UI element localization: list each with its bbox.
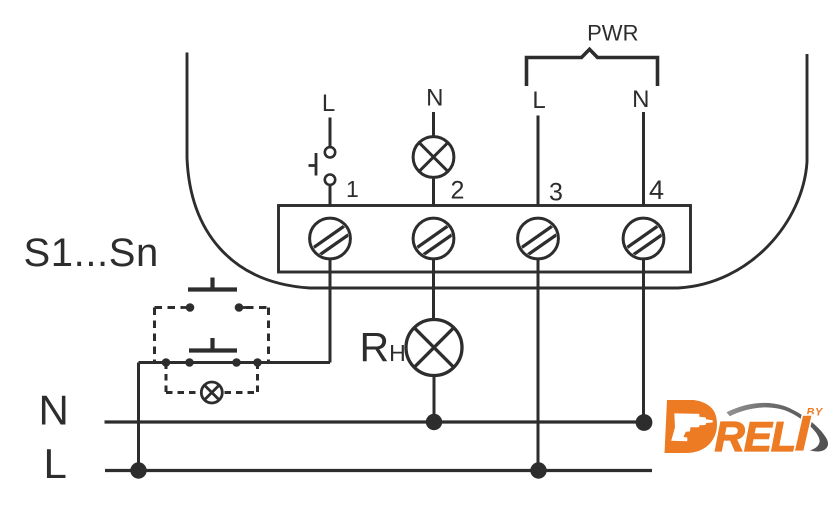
junction terminal 4 / N bus [636, 414, 653, 431]
device outline [187, 53, 807, 289]
switch S contact lower [325, 175, 335, 185]
wire terminal 1 down [329, 259, 332, 363]
lamp branch dashed bottom left [166, 391, 200, 394]
svg-text:N: N [39, 387, 69, 434]
logo letter I [795, 416, 811, 451]
wire L to switch [329, 118, 332, 148]
terminal 1 [310, 218, 351, 259]
svg-text:L: L [44, 440, 67, 487]
wire switch to terminal 1 [329, 186, 332, 206]
PWR bracket [527, 49, 658, 86]
junction RH / N bus [426, 414, 442, 430]
wire RH to N bus [433, 376, 436, 423]
N bus [105, 420, 645, 423]
switch S contact upper [325, 147, 335, 157]
wire N PWR to terminal 4 [642, 112, 645, 206]
lamp RH [406, 320, 462, 376]
wire terminal 3 down [537, 259, 540, 471]
pushbutton S1 contact right [235, 303, 248, 312]
pushbutton S1 actuator [188, 278, 237, 290]
wire S row to terminal 1 [139, 361, 331, 364]
junction lamp branch right [253, 358, 262, 367]
svg-text:L: L [322, 90, 335, 117]
pushbutton S1 contact left [181, 303, 195, 312]
svg-text:2: 2 [451, 177, 465, 205]
L bus [105, 469, 652, 472]
svg-text:L: L [532, 87, 545, 114]
pushbutton Sn contact right [232, 358, 241, 367]
logo swoosh [727, 403, 829, 452]
wire terminal 2 down [432, 259, 435, 320]
lamp branch dashed bottom right [225, 391, 258, 394]
lamp branch dashed right [256, 363, 259, 393]
wire N to lamp [432, 112, 435, 137]
terminal block [279, 206, 691, 273]
svg-text:1: 1 [346, 176, 359, 202]
lamp branch dashed left [165, 363, 168, 393]
junction lamp branch left [162, 358, 171, 367]
switch S actuator [309, 153, 317, 176]
wire lamp to terminal 2 [432, 178, 435, 206]
S enclosure dashed left [153, 308, 156, 363]
logo D with drill [665, 400, 718, 453]
terminal 2 [413, 218, 454, 259]
indicator lamp in switch [201, 382, 222, 403]
S enclosure dashed top right [246, 306, 269, 309]
S enclosure dashed right [267, 308, 270, 363]
svg-text:REL: REL [715, 413, 796, 460]
lamp (terminal 2 indicator) [413, 137, 454, 178]
svg-text:3: 3 [549, 179, 563, 207]
junction S column / L bus [130, 462, 146, 478]
pushbutton Sn actuator [189, 338, 237, 351]
logo DRELI [665, 400, 829, 460]
pushbutton Sn contact left [185, 358, 194, 367]
svg-text:N: N [426, 85, 443, 112]
svg-text:RH: RH [360, 324, 406, 370]
wire L PWR to terminal 3 [537, 116, 540, 206]
terminal 4 [623, 218, 664, 259]
wire terminal 4 down [642, 259, 645, 423]
svg-text:S1...Sn: S1...Sn [24, 231, 159, 275]
svg-text:N: N [632, 86, 649, 113]
logo drill silhouette [671, 413, 713, 441]
svg-text:PWR: PWR [587, 21, 638, 46]
terminal 3 [518, 218, 559, 259]
junction terminal 3 / L bus [530, 462, 546, 478]
S enclosure dashed top left [155, 306, 183, 309]
svg-text:4: 4 [649, 175, 664, 205]
wire S column to L bus [137, 363, 140, 471]
